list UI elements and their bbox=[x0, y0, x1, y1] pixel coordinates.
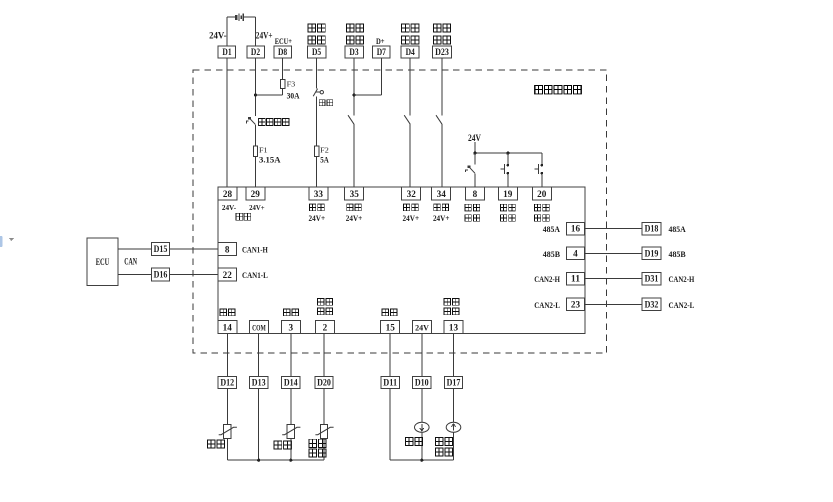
wire: D4 down to switch bbox=[409, 58, 411, 115]
wire: sensor to common bbox=[323, 439, 325, 461]
wire: fuse F2 to terminal 33 bbox=[316, 156, 318, 187]
svg-text:CAN2-L: CAN2-L bbox=[534, 301, 560, 310]
svg-text:15: 15 bbox=[386, 322, 396, 332]
wire: terminal 23 to D32 bbox=[585, 303, 642, 305]
pin label: start (启动) bbox=[347, 204, 362, 211]
svg-text:485A: 485A bbox=[669, 225, 686, 234]
svg-text:ECU: ECU bbox=[96, 257, 110, 267]
terminal 34 bbox=[432, 187, 451, 200]
terminal 20 bbox=[532, 187, 551, 200]
fuse F3 bbox=[280, 79, 284, 88]
push button: start input bbox=[535, 164, 544, 175]
svg-text:4: 4 bbox=[573, 248, 578, 258]
label: load-output line2 (输出) bbox=[402, 36, 419, 44]
pressure sensor: spare (备用压力) bbox=[446, 422, 461, 432]
wire: D2 to battery bbox=[255, 17, 257, 46]
terminal 32 bbox=[402, 187, 421, 200]
svg-text:485B: 485B bbox=[669, 250, 687, 259]
label: stop-output line2 (输出) bbox=[308, 36, 325, 44]
wire: spare sensor to common bbox=[453, 432, 455, 460]
wire: battery loop top right bbox=[244, 16, 256, 18]
svg-text:24V+: 24V+ bbox=[346, 214, 363, 223]
svg-text:D+: D+ bbox=[376, 36, 385, 46]
svg-text:35: 35 bbox=[350, 189, 360, 199]
pin label: load (加载) bbox=[403, 204, 418, 211]
terminal 2 (备用温度) bbox=[316, 320, 335, 333]
terminal D4 bbox=[401, 46, 419, 58]
svg-text:24V-: 24V- bbox=[209, 31, 227, 41]
svg-text:30A: 30A bbox=[287, 91, 300, 100]
pin label: high-pressure (高压) bbox=[465, 204, 480, 211]
svg-text:D12: D12 bbox=[220, 378, 234, 388]
wire: D16 to terminal 22 (CAN1-L) bbox=[170, 274, 218, 276]
wire: F3 branch to D2 line bbox=[256, 94, 283, 96]
svg-text:D17: D17 bbox=[447, 378, 461, 388]
terminal 29 bbox=[246, 187, 265, 200]
pin label: spare-pressure line2 (压力) bbox=[444, 308, 459, 315]
terminal 8 (CAN1-H) bbox=[218, 243, 236, 256]
svg-text:19: 19 bbox=[503, 189, 513, 199]
label: spare line1 (备用) bbox=[309, 439, 326, 447]
pin label: spare-temp line2 (温度) bbox=[318, 308, 333, 315]
wire: bottom terminal to D11 bbox=[389, 334, 391, 377]
svg-text:D3: D3 bbox=[349, 47, 359, 57]
svg-text:D7: D7 bbox=[377, 47, 387, 57]
wire: 24V bus bbox=[475, 152, 542, 154]
terminal D32 bbox=[642, 298, 661, 311]
label: key switch (钥匙开关) bbox=[259, 118, 289, 125]
thermistor: spare temperature (备用温度) bbox=[315, 425, 333, 439]
wire: fuse F1 to terminal 29 bbox=[255, 156, 257, 187]
svg-text:CAN: CAN bbox=[124, 257, 137, 267]
terminal 24V bbox=[413, 320, 432, 333]
pin label: input (输入) bbox=[534, 215, 549, 222]
wire: D23 down to switch bbox=[441, 58, 443, 115]
wire: e-stop to fuse F2 bbox=[316, 97, 318, 146]
pin label: power (电源) bbox=[236, 213, 251, 220]
svg-text:23: 23 bbox=[571, 299, 581, 309]
switch: load output contact bbox=[404, 115, 410, 124]
label: dump-output line1 (泄放) bbox=[433, 24, 450, 32]
svg-text:2: 2 bbox=[323, 322, 328, 332]
svg-text:COM: COM bbox=[252, 323, 266, 332]
svg-text:24V+: 24V+ bbox=[309, 214, 326, 223]
svg-text:D32: D32 bbox=[645, 299, 659, 309]
controller box bbox=[218, 187, 585, 334]
svg-text:3.15A: 3.15A bbox=[259, 156, 281, 165]
svg-text:34: 34 bbox=[437, 189, 447, 199]
junction: D2/F3 branch bbox=[254, 93, 257, 96]
wire: sensor to common bbox=[290, 439, 292, 461]
wire: switch to terminal 35 bbox=[353, 124, 355, 187]
svg-text:24V: 24V bbox=[468, 133, 481, 143]
svg-text:20: 20 bbox=[537, 189, 547, 199]
label: start-output line2 (输出) bbox=[346, 36, 363, 44]
terminal 13 (备用压力) bbox=[444, 320, 463, 333]
svg-text:D15: D15 bbox=[154, 244, 168, 254]
wire: terminal 16 to D18 bbox=[585, 228, 642, 230]
label: e-stop (急停) bbox=[319, 100, 332, 106]
wire: terminal 4 to D19 bbox=[585, 252, 642, 254]
wire: D1 to battery bbox=[226, 17, 228, 46]
terminal 16 (485A) bbox=[566, 222, 584, 234]
terminal D16 bbox=[151, 268, 169, 281]
terminal D13 bbox=[250, 376, 268, 388]
wire: D2 down to key switch bbox=[255, 58, 257, 116]
terminal D19 bbox=[642, 247, 661, 260]
svg-text:D4: D4 bbox=[406, 47, 416, 57]
svg-text:ECU+: ECU+ bbox=[275, 37, 292, 46]
wire: 24V down bbox=[474, 142, 476, 153]
terminal 33 bbox=[309, 187, 328, 200]
wire: pressure sensor to common bbox=[421, 432, 423, 460]
pin label: spare line1 (备用) bbox=[318, 299, 333, 306]
label: spare line1 (备用) bbox=[435, 437, 452, 445]
terminal 8 (top) bbox=[466, 187, 485, 200]
terminal D15 bbox=[151, 243, 169, 256]
pin label: input (输入) bbox=[500, 215, 515, 222]
label: air-pressure (气压) bbox=[405, 437, 422, 445]
svg-text:24V-: 24V- bbox=[222, 203, 237, 212]
wire: switch to terminal 32 bbox=[409, 124, 411, 187]
svg-text:24V+: 24V+ bbox=[403, 214, 420, 223]
svg-text:D1: D1 bbox=[222, 47, 232, 57]
terminal D17 bbox=[444, 376, 462, 388]
pin label: air-pressure (气压) bbox=[382, 309, 397, 316]
terminal D14 bbox=[282, 376, 300, 388]
svg-text:CAN1-H: CAN1-H bbox=[242, 245, 268, 254]
wire: to push button (input 20) bbox=[541, 153, 543, 164]
pin label: start (启动) bbox=[534, 204, 549, 211]
terminal D23 bbox=[433, 46, 452, 58]
wire: D5 to e-stop bbox=[316, 58, 318, 88]
label: load-output line1 (加载) bbox=[402, 24, 419, 32]
svg-text:D2: D2 bbox=[251, 47, 261, 57]
pin label: stop (停机) bbox=[309, 204, 324, 211]
svg-text:D5: D5 bbox=[312, 47, 322, 57]
svg-text:8: 8 bbox=[473, 189, 478, 199]
label: controller-internal (控制器内部) bbox=[535, 86, 582, 94]
label: spare-temp line2 (温度) bbox=[309, 449, 326, 457]
svg-text:22: 22 bbox=[223, 270, 233, 280]
terminal 35 bbox=[345, 187, 364, 200]
terminal 4 (485B) bbox=[566, 247, 584, 259]
svg-text:33: 33 bbox=[314, 189, 324, 199]
wire: bottom terminal to D10 bbox=[421, 334, 423, 377]
label: oil-level (油位) bbox=[274, 441, 291, 449]
svg-text:D14: D14 bbox=[284, 378, 298, 388]
svg-text:3: 3 bbox=[289, 322, 294, 332]
junction: D3/D7 bbox=[352, 93, 355, 96]
wire: sensor common (left group) bbox=[227, 459, 324, 461]
terminal 19 bbox=[498, 187, 517, 200]
label: start-output line1 (启动) bbox=[346, 24, 363, 32]
pin label: spare line1 (备用) bbox=[444, 299, 459, 306]
wire: bottom terminal to D12 bbox=[226, 334, 228, 377]
svg-text:D19: D19 bbox=[645, 248, 659, 258]
wire: D13 to common bbox=[258, 389, 260, 461]
svg-text:D23: D23 bbox=[435, 47, 449, 57]
svg-text:D11: D11 bbox=[383, 378, 397, 388]
switch: dump output contact bbox=[436, 115, 442, 124]
svg-text:14: 14 bbox=[223, 322, 233, 332]
svg-text:24V: 24V bbox=[415, 323, 429, 332]
junction: oil-level sensor bbox=[289, 459, 292, 462]
wire: D8 to fuse F3 bbox=[282, 58, 284, 79]
svg-text:D8: D8 bbox=[278, 47, 288, 57]
terminal D5 bbox=[307, 46, 326, 58]
wire: to sensor bbox=[226, 389, 228, 425]
pin label: input (输入) bbox=[465, 215, 480, 222]
terminal 3 (油位) bbox=[281, 320, 300, 333]
junction: 24V bus at input 8 bbox=[473, 152, 476, 155]
terminal D18 bbox=[642, 222, 661, 235]
svg-text:F2: F2 bbox=[320, 146, 329, 155]
pin label: dump (泄放) bbox=[434, 204, 449, 211]
label: stop-output line1 (停机) bbox=[308, 24, 325, 32]
wire: sensor common (right group) bbox=[390, 459, 453, 461]
pin label: oil-level (油位) bbox=[284, 309, 299, 316]
svg-text:D20: D20 bbox=[317, 378, 331, 388]
svg-text:D18: D18 bbox=[645, 224, 659, 234]
wire: D10 to pressure sensor bbox=[421, 389, 423, 423]
terminal D10 bbox=[413, 376, 431, 388]
svg-text:24V+: 24V+ bbox=[433, 214, 450, 223]
terminal 11 (CAN2-H) bbox=[566, 272, 584, 284]
key switch S1 (钥匙开关) bbox=[246, 117, 255, 125]
wire: D17 to spare pressure sensor bbox=[453, 389, 455, 423]
wire: D7 down bbox=[380, 58, 382, 95]
wire: sensor to common bbox=[226, 439, 228, 461]
svg-text:485A: 485A bbox=[543, 225, 560, 234]
terminal D31 bbox=[642, 272, 661, 285]
svg-text:F3: F3 bbox=[287, 79, 296, 88]
terminal 14 (气温) bbox=[218, 320, 237, 333]
svg-text:24V+: 24V+ bbox=[249, 203, 265, 212]
terminal COM bbox=[250, 320, 269, 333]
wire: D1 to terminal 28 bbox=[226, 58, 228, 187]
svg-text:D13: D13 bbox=[252, 378, 266, 388]
pin label: air-temp (气温) bbox=[220, 309, 235, 316]
terminal D11 bbox=[381, 376, 399, 388]
thermistor: air temperature (气温) bbox=[219, 425, 237, 439]
terminal 22 (CAN1-L) bbox=[218, 268, 236, 281]
svg-text:13: 13 bbox=[449, 322, 459, 332]
ECU box bbox=[87, 238, 118, 285]
svg-text:D31: D31 bbox=[645, 274, 659, 284]
wire: bottom terminal to D20 bbox=[323, 334, 325, 377]
svg-text:32: 32 bbox=[407, 189, 417, 199]
svg-text:485B: 485B bbox=[543, 250, 561, 259]
key switch: high-pressure input bbox=[466, 165, 475, 173]
wire: bottom terminal to D13 bbox=[258, 334, 260, 377]
terminal D1 bbox=[218, 46, 236, 58]
junction: 24V bus at input 19 bbox=[506, 152, 509, 155]
wire: push button to terminal 20 bbox=[541, 174, 543, 187]
wire: D3 down to switch bbox=[353, 58, 355, 115]
svg-text:29: 29 bbox=[251, 189, 261, 199]
svg-text:5A: 5A bbox=[320, 156, 329, 165]
terminal D2 bbox=[247, 46, 264, 58]
wire: D7 branch to D3 line bbox=[354, 94, 381, 96]
svg-text:CAN2-H: CAN2-H bbox=[669, 275, 695, 284]
wire: D11 to common bbox=[389, 389, 391, 461]
wire: push button to terminal 19 bbox=[507, 174, 509, 187]
pin label: stop (停机) bbox=[500, 204, 515, 211]
terminal D12 bbox=[218, 376, 236, 388]
label: spare-pressure line2 (压力) bbox=[435, 448, 452, 456]
wire: to sensor bbox=[290, 389, 292, 425]
svg-text:11: 11 bbox=[571, 274, 581, 284]
junction: air pressure sensor bbox=[420, 459, 423, 462]
terminal D8 bbox=[274, 46, 292, 58]
terminal D7 bbox=[373, 46, 391, 58]
fuse F2 bbox=[314, 146, 318, 156]
label: air-temp (气温) bbox=[207, 440, 224, 448]
push button: stop input bbox=[501, 164, 510, 175]
wire: to sensor bbox=[323, 389, 325, 425]
controller enclosure (dashed boundary) bbox=[193, 70, 606, 353]
svg-text:D10: D10 bbox=[415, 378, 429, 388]
terminal 28 bbox=[218, 187, 237, 200]
battery B1 bbox=[235, 13, 243, 20]
thermistor: oil level (油位) bbox=[282, 425, 300, 439]
wire: battery loop top left bbox=[227, 16, 235, 18]
emergency stop button (急停) bbox=[313, 89, 323, 97]
wire: D15 to terminal 8 (CAN1-H) bbox=[170, 248, 218, 250]
svg-text:16: 16 bbox=[571, 224, 581, 234]
wire: ECU to D15 bbox=[118, 248, 151, 250]
wire: fuse F3 down bbox=[282, 89, 284, 95]
wire: key switch to terminal 8 bbox=[474, 173, 476, 187]
svg-text:28: 28 bbox=[223, 189, 233, 199]
wire: terminal 11 to D31 bbox=[585, 278, 642, 280]
wire: bottom terminal to D17 bbox=[453, 334, 455, 377]
terminal 15 (气压) bbox=[381, 320, 400, 333]
terminal D20 bbox=[315, 376, 333, 388]
wire: key switch to fuse F1 bbox=[255, 125, 257, 146]
svg-text:CAN2-L: CAN2-L bbox=[669, 301, 695, 310]
switch: start output contact bbox=[348, 115, 354, 124]
wire: to push button (input 19) bbox=[507, 153, 509, 164]
label: dump-output line2 (输出) bbox=[433, 36, 450, 44]
svg-text:8: 8 bbox=[225, 244, 230, 254]
pressure sensor: air pressure (气压) bbox=[415, 422, 430, 432]
svg-text:CAN2-H: CAN2-H bbox=[534, 275, 560, 284]
wire: bottom terminal to D14 bbox=[290, 334, 292, 377]
svg-text:D16: D16 bbox=[154, 270, 168, 280]
wire: to key switch (input 8) bbox=[474, 153, 476, 165]
terminal D3 bbox=[345, 46, 364, 58]
fuse F1 bbox=[253, 146, 257, 156]
svg-text:24V+: 24V+ bbox=[256, 31, 273, 41]
wire: switch to terminal 34 bbox=[441, 124, 443, 187]
junction: COM/D13 bbox=[257, 459, 260, 462]
toolbar artifact (blue bar) bbox=[0, 236, 3, 247]
svg-text:CAN1-L: CAN1-L bbox=[242, 271, 268, 280]
terminal 23 (CAN2-L) bbox=[566, 298, 584, 310]
svg-text:F1: F1 bbox=[259, 146, 268, 155]
wire: ECU to D16 bbox=[118, 274, 151, 276]
toolbar artifact (grey dropdown arrow) bbox=[9, 238, 14, 241]
